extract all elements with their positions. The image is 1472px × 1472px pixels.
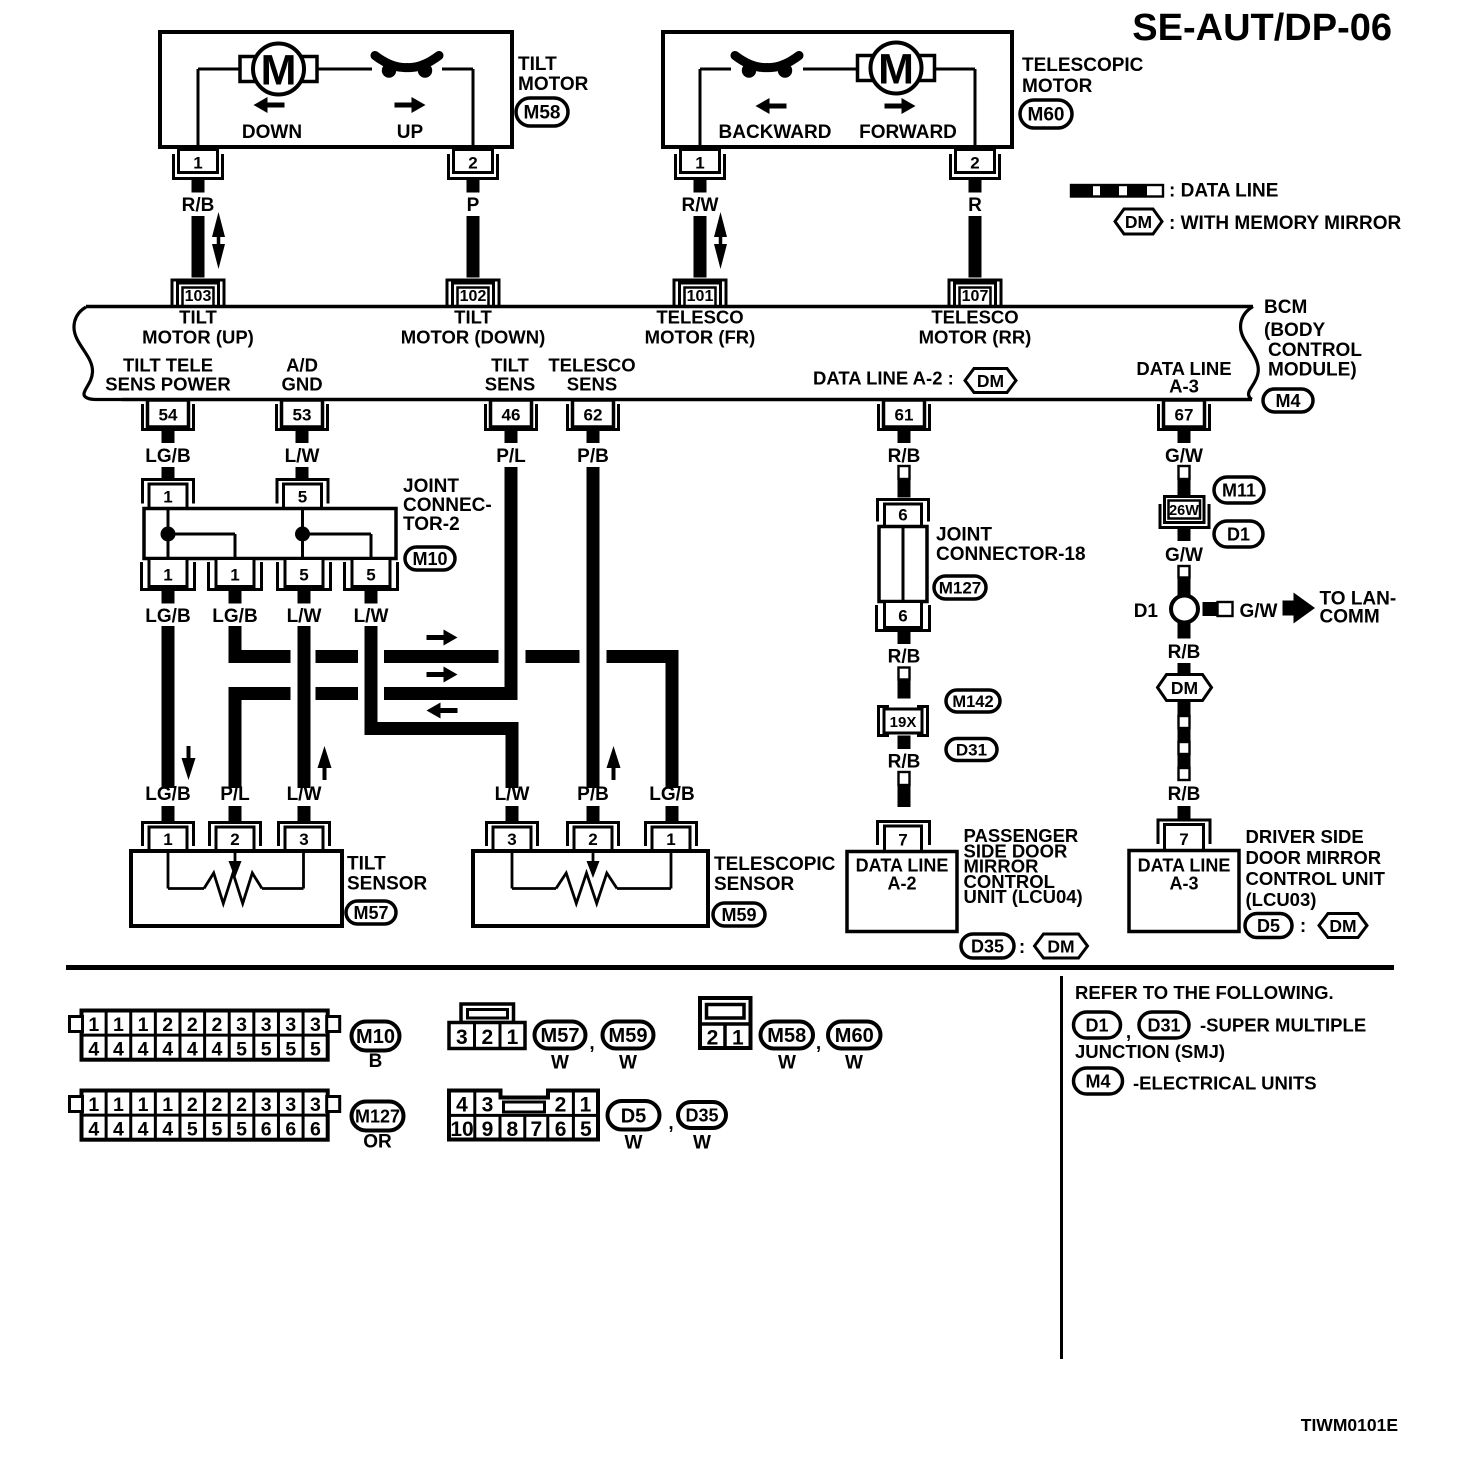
svg-text:8: 8 [507,1118,519,1141]
svg-text:TILT: TILT [454,307,492,328]
connector label M10 [352,1022,400,1051]
svg-text:1: 1 [113,1094,124,1116]
wire stub [1178,623,1191,639]
svg-text:LG/B: LG/B [145,606,190,627]
data line wire (white) [899,772,910,785]
svg-text:P/L: P/L [496,446,526,467]
svg-text:M57: M57 [353,903,388,923]
svg-text:L/W: L/W [287,784,322,805]
svg-text:DATA LINE: DATA LINE [856,856,949,876]
motor M symbol [240,57,257,82]
joint connector-18 top pin 6 [878,500,929,522]
svg-text:2: 2 [481,1026,493,1049]
joint connector-18 bottom pin 6 [885,602,922,628]
svg-text:1: 1 [230,566,239,585]
svg-text:JOINT: JOINT [403,476,459,497]
wire stub [1178,431,1191,443]
svg-text:3: 3 [299,830,308,849]
svg-text:R/W: R/W [682,195,719,216]
svg-text:5: 5 [187,1119,198,1141]
connector label M57 [535,1022,586,1049]
svg-text:1: 1 [163,830,172,849]
wire [192,216,205,278]
svg-text:M10: M10 [412,549,447,569]
svg-text:DOOR MIRROR: DOOR MIRROR [1246,847,1382,868]
svg-text:61: 61 [895,406,914,425]
svg-text:3: 3 [285,1014,296,1036]
svg-text:R/B: R/B [1168,642,1201,663]
SMJ connector 19X [879,707,890,736]
svg-text:DATA LINE A-2 :: DATA LINE A-2 : [813,368,954,389]
svg-text:D35: D35 [971,936,1004,956]
connector label M57 [346,901,396,924]
svg-text:(LCU03): (LCU03) [1246,889,1317,910]
wire [197,69,200,147]
wire stub [898,431,911,443]
svg-text:5: 5 [310,1039,321,1061]
svg-text:DRIVER SIDE: DRIVER SIDE [1246,826,1364,847]
svg-text:46: 46 [502,406,521,425]
svg-text:5: 5 [298,488,307,507]
svg-text:M58: M58 [524,103,561,124]
wire stub [506,806,519,823]
tilt sensor pin 3 [279,823,330,847]
svg-text:W: W [625,1133,643,1154]
svg-text:TELESCOPIC: TELESCOPIC [1022,55,1144,76]
wire stub [505,431,518,443]
svg-text:67: 67 [1175,406,1194,425]
connector label D5 [608,1101,660,1130]
svg-text:TIWM0101E: TIWM0101E [1301,1415,1398,1435]
data line wire (black) [898,680,911,699]
svg-text:M57: M57 [541,1025,580,1047]
wire L/W col4 upper [365,626,378,735]
BCM pin 107 [949,280,1001,307]
data line wire (white) [899,668,910,680]
data line wire (black) [898,785,911,807]
svg-text:2: 2 [588,830,597,849]
BCM pin 103 [172,280,224,307]
connector face D5/D35 (10 pin) [449,1091,598,1140]
svg-text:P/L: P/L [220,784,250,805]
connector label D35 [678,1102,726,1128]
svg-text:1: 1 [193,154,202,173]
internal wire [167,509,170,559]
wire P/L col5 from BCM [505,467,518,700]
data line wire (black) [1178,578,1191,596]
wire L/W col3 [298,626,311,788]
svg-text:M: M [878,46,914,94]
connector label M127 [934,576,986,599]
svg-text:2: 2 [236,1094,247,1116]
svg-text:1: 1 [162,1094,173,1116]
arrow down [187,746,191,762]
svg-text:2: 2 [970,154,979,173]
telescopic sensor box M59 [473,851,708,926]
svg-text:W: W [619,1053,637,1074]
BCM pin 62 [573,400,614,427]
separator line [66,965,1394,970]
svg-text:5: 5 [236,1119,247,1141]
svg-text:1: 1 [732,1027,744,1050]
svg-text:3: 3 [261,1094,272,1116]
svg-text:DM: DM [1047,936,1074,956]
svg-text:1: 1 [88,1094,99,1116]
svg-text:SENS: SENS [567,374,617,395]
svg-text:MOTOR (FR): MOTOR (FR) [645,327,756,348]
svg-text:1: 1 [163,488,172,507]
BCM band bottom line [122,398,1252,402]
svg-text:101: 101 [687,288,714,305]
svg-text:5: 5 [299,566,308,585]
svg-text:R: R [968,195,982,216]
svg-text:CONNEC-: CONNEC- [403,495,492,516]
svg-text:FORWARD: FORWARD [859,122,957,143]
LCU04 pin 7 [878,822,930,846]
connector face M10 [82,1011,328,1060]
svg-text:L/W: L/W [354,606,389,627]
potentiometer [167,851,170,889]
connector label M60 [1020,100,1072,128]
wire stub [898,631,911,644]
connector face M127 [82,1091,328,1140]
svg-text:6: 6 [898,506,907,525]
data line wire (white) [899,466,910,479]
svg-text:DATA LINE: DATA LINE [1138,856,1231,876]
svg-text:M: M [261,47,297,95]
arrow FORWARD [885,104,903,109]
svg-text:DOWN: DOWN [242,122,302,143]
svg-text:DM: DM [1171,678,1198,698]
svg-text:G/W: G/W [1165,545,1203,566]
svg-text:G/W: G/W [1165,446,1203,467]
arrow BACKWARD [769,104,787,109]
motor M symbol [858,56,875,81]
svg-text:53: 53 [293,406,312,425]
wire stub [298,591,311,604]
svg-text:M60: M60 [1028,105,1065,126]
svg-text:1: 1 [666,830,675,849]
data line wire (black) [1178,479,1191,497]
connector face M57/M59 (3 2 1) [461,1004,514,1023]
DM hexagon [1035,934,1088,958]
svg-text:54: 54 [159,406,178,425]
svg-text:R/B: R/B [888,446,921,467]
svg-text:2: 2 [555,1094,567,1117]
svg-text:: WITH MEMORY MIRROR: : WITH MEMORY MIRROR [1169,213,1401,234]
svg-text:TILT: TILT [491,355,529,376]
joint connector-18 body M127 [879,527,927,602]
svg-text:SENSOR: SENSOR [347,874,428,895]
wiper arrow [592,851,595,864]
BCM pin 54 [148,400,189,427]
wire stub [467,180,480,193]
wire [467,216,480,278]
svg-text:1: 1 [507,1026,519,1049]
svg-text:MOTOR: MOTOR [518,74,589,95]
wiper arrow [234,851,237,864]
svg-text:R/B: R/B [182,195,215,216]
svg-text:4: 4 [113,1039,124,1061]
wire stub [192,180,205,193]
BCM pin 61 [884,400,925,427]
SMJ connector 26W [1160,504,1209,528]
svg-text:SENS: SENS [485,374,535,395]
svg-text:M4: M4 [1275,391,1300,411]
svg-text::: : [1019,937,1025,958]
arrow TO LAN-COMM [1283,601,1294,616]
BCM pin 67 [1164,400,1205,427]
svg-text:SENSOR: SENSOR [714,874,795,895]
wire stub [298,806,311,823]
svg-text:D31: D31 [1147,1015,1180,1035]
BCM pin 102 [447,280,499,307]
BCM band left torn edge [74,307,122,400]
svg-text:CONTROL UNIT: CONTROL UNIT [1246,868,1386,889]
svg-text:R/B: R/B [888,752,921,773]
junction D1 circle [1171,596,1198,623]
svg-text:1: 1 [163,566,172,585]
svg-text:A-3: A-3 [1169,874,1198,894]
svg-text:M59: M59 [721,905,756,925]
svg-text:D5: D5 [1257,916,1280,936]
wire stub [229,806,242,823]
telescopic motor box M60 [663,32,1012,147]
svg-text:103: 103 [185,288,212,305]
wire stub [296,431,309,443]
connector label D35 [961,934,1014,958]
arrow right upper [427,635,445,640]
svg-text:CONNECTOR-18: CONNECTOR-18 [936,544,1086,565]
svg-text:4: 4 [88,1119,99,1141]
svg-text:SENS POWER: SENS POWER [105,374,230,395]
svg-text:3: 3 [310,1094,321,1116]
svg-text:: DATA LINE: : DATA LINE [1169,181,1278,202]
connector label D31 [1139,1012,1189,1038]
wire stub [969,180,982,193]
svg-text:TELESCO: TELESCO [548,355,635,376]
limit switch symbol [742,63,756,77]
vertical divider [1060,976,1063,1359]
svg-text:P/B: P/B [577,446,609,467]
legend DM hexagon [1115,209,1162,234]
svg-text:DM: DM [977,371,1004,391]
svg-text:MODULE): MODULE) [1268,360,1357,381]
connector label D5 [1245,914,1292,938]
joint connector-2 top pin 1 [143,480,194,504]
joint connector-2 body M10 [144,509,396,559]
svg-text:4: 4 [162,1119,173,1141]
dashed data line [1178,701,1191,717]
svg-text:-SUPER MULTIPLE: -SUPER MULTIPLE [1200,1015,1366,1036]
svg-text:B: B [369,1051,383,1072]
wire stub [162,806,175,823]
data line wire (white) [1179,566,1190,578]
svg-text:P/B: P/B [577,784,609,805]
wire LG/B col1 [162,626,175,788]
svg-text:,: , [668,1113,673,1134]
svg-text:7: 7 [1179,830,1188,849]
svg-text:3: 3 [285,1094,296,1116]
wire col2 down from row B [229,687,242,788]
svg-text:REFER TO THE FOLLOWING.: REFER TO THE FOLLOWING. [1075,982,1334,1003]
svg-text:4: 4 [88,1039,99,1061]
arrow UP [395,103,413,108]
svg-text:5: 5 [285,1039,296,1061]
svg-text:2: 2 [211,1014,222,1036]
svg-text:(BODY: (BODY [1264,320,1326,341]
svg-text:R/B: R/B [888,647,921,668]
wire [296,467,309,479]
svg-text:R/B: R/B [1168,784,1201,805]
svg-text:M4: M4 [1085,1071,1110,1091]
svg-text:G/W: G/W [1240,601,1278,622]
svg-text:D5: D5 [621,1105,647,1127]
wire stub [666,806,679,823]
BCM pin 101 [674,280,726,307]
svg-text:SE-AUT/DP-06: SE-AUT/DP-06 [1132,7,1392,49]
wire stub [587,806,600,823]
data line wire (white) [1179,466,1190,479]
legend data line symbol [1071,185,1163,197]
wire stub [1178,663,1191,675]
wire [162,467,175,479]
svg-text:A/D: A/D [286,355,318,376]
svg-text:-ELECTRICAL UNITS: -ELECTRICAL UNITS [1133,1073,1317,1094]
svg-text:,: , [816,1033,821,1054]
wire stub [694,180,707,193]
svg-text:5: 5 [236,1039,247,1061]
svg-text:3: 3 [456,1026,468,1049]
wire stub [587,431,600,443]
joint connector-2 bottom pin 1 [149,559,187,587]
svg-text:D1: D1 [1085,1015,1108,1035]
wire row B (P/L to M57 pin2) [229,687,291,700]
svg-text:6: 6 [898,607,907,626]
svg-text:2: 2 [230,830,239,849]
svg-text:MOTOR (UP): MOTOR (UP) [142,327,254,348]
svg-text:26W: 26W [1169,503,1199,519]
BCM band top line [86,305,1253,309]
svg-text:COMM: COMM [1320,607,1380,628]
svg-text:4: 4 [138,1119,149,1141]
svg-text:62: 62 [584,406,603,425]
wire stub [162,431,175,443]
svg-text:2: 2 [187,1094,198,1116]
wire stub [365,591,378,604]
wire [694,216,707,278]
svg-text:6: 6 [261,1119,272,1141]
connector label M58 [761,1022,814,1049]
svg-text::: : [1300,916,1306,937]
svg-text:1: 1 [113,1014,124,1036]
motor pin 1 [179,150,218,173]
connector face M58/M60 (2 1) [700,998,751,1048]
svg-text:BCM: BCM [1264,297,1307,318]
svg-text:LG/B: LG/B [145,784,190,805]
wire stub [162,591,175,604]
svg-text:W: W [551,1053,569,1074]
svg-text:2: 2 [187,1014,198,1036]
svg-text:4: 4 [187,1039,198,1061]
DM hexagon [1158,675,1212,701]
wire [969,216,982,278]
svg-text:3: 3 [482,1094,494,1117]
svg-text:6: 6 [555,1118,567,1141]
telescopic sensor pin 3 [487,823,538,847]
potentiometer [511,851,514,889]
svg-text:1: 1 [580,1094,592,1117]
svg-text:M58: M58 [767,1025,806,1047]
svg-text:M11: M11 [1222,480,1256,500]
svg-text:3: 3 [507,830,516,849]
svg-text:1: 1 [88,1014,99,1036]
joint connector-2 bottom pin 5 [352,559,390,587]
svg-text:W: W [778,1053,796,1074]
svg-text:TELESCO: TELESCO [931,307,1018,328]
svg-text:LG/B: LG/B [212,606,257,627]
connector label M10 [405,547,455,570]
svg-text:M60: M60 [835,1025,874,1047]
svg-text:2: 2 [468,154,477,173]
connector label D1 [1074,1012,1121,1038]
svg-text:2: 2 [211,1094,222,1116]
svg-text:P: P [467,195,480,216]
svg-text:LG/B: LG/B [145,446,190,467]
telescopic sensor pin 1 [646,823,697,847]
passenger door mirror control unit box [847,852,957,932]
connector label M142 [946,690,1000,712]
svg-text:UP: UP [397,122,424,143]
svg-text:4: 4 [162,1039,173,1061]
wire stub [898,736,911,750]
arrow right middle [427,672,445,677]
svg-text:6: 6 [285,1119,296,1141]
BCM band right torn edge [1241,307,1259,400]
svg-text:W: W [845,1053,863,1074]
svg-text:7: 7 [530,1118,542,1141]
svg-text:L/W: L/W [287,606,322,627]
data line wire (black) [898,479,911,498]
wire [198,68,241,71]
svg-text:TILT: TILT [518,54,557,75]
svg-text:TILT TELE: TILT TELE [123,355,213,376]
svg-text:M10: M10 [356,1026,395,1048]
motor pin 1 [681,150,720,173]
svg-text:5: 5 [261,1039,272,1061]
svg-text:5: 5 [366,566,375,585]
double arrow [719,232,723,249]
svg-text:JUNCTION (SMJ): JUNCTION (SMJ) [1075,1041,1225,1062]
svg-text:9: 9 [482,1118,494,1141]
arrow up [612,764,616,780]
svg-text:JOINT: JOINT [936,525,992,546]
junction node [295,527,310,542]
svg-text:4: 4 [211,1039,222,1061]
connector label M58 [516,98,568,126]
svg-text:6: 6 [310,1119,321,1141]
svg-text:4: 4 [138,1039,149,1061]
svg-text:DM: DM [1125,212,1152,232]
branch data line symbol [1203,602,1218,616]
svg-text:5: 5 [211,1119,222,1141]
svg-text:2: 2 [162,1014,173,1036]
wire stub [229,591,242,604]
wire col5 down from row C [506,722,519,788]
svg-text:M59: M59 [609,1025,648,1047]
joint connector-2 top pin 5 [277,480,328,504]
telescopic sensor pin 2 [568,823,619,847]
